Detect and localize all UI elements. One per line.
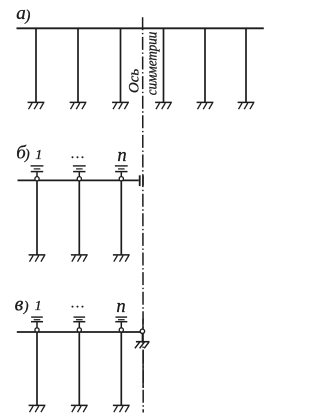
element 1 (electrode symbol, section б) [31,166,44,177]
ground at symmetry axis (section в) [135,342,150,349]
wire down 1 (section б) [36,181,38,255]
wire: branch 3 (section а) [120,28,122,102]
svg-text:): ) [24,8,30,25]
element 1 (electrode symbol, section в) [31,317,43,328]
half-capacitor at symmetry axis (section б) : left plate [139,175,141,186]
wire: branch 4 (section а) [163,28,165,102]
svg-text:): ) [23,299,29,315]
bus wire (section в) [17,331,143,333]
axis of symmetry (dash-dot centre line) [142,17,145,412]
element n (electrode symbol, section в) [115,317,127,328]
bus wire (section б) [18,179,139,181]
axis solid segment below axis ground (section в) [142,350,144,389]
element 2 (electrode symbol, section б) [73,166,86,177]
svg-text:): ) [24,147,30,163]
svg-text:симметрии: симметрии [145,32,161,96]
ground (branch 1, section а) [28,102,45,109]
node circle 1 (section в) [35,328,39,332]
wire down n (section в) [120,332,122,405]
ground n (section б) [113,255,130,262]
ground (branch 3, section а) [112,102,129,109]
wire: branch 5 (section а) [204,28,206,102]
node circle n (section б) [119,177,123,181]
ground 2 (section б) [71,255,88,262]
wire down n (section б) [120,181,122,255]
ground (branch 2, section а) [70,102,87,109]
ground (branch 4, section а) [155,102,172,109]
ground n (section в) [113,405,130,412]
node circle 1 (section б) [35,177,39,181]
axis solid segment above node circle (section в) [142,319,144,330]
wire: branch 6 (section а) [245,28,247,102]
wire from axis node down to ground (section в) [141,334,143,342]
svg-text:в: в [15,293,24,315]
ground 1 (section б) [29,255,46,262]
ground 1 (section в) [29,405,46,412]
svg-text:n: n [117,146,126,166]
bus wire (section а) [17,27,264,29]
ground (branch 5, section а) [197,102,214,109]
svg-text:n: n [116,297,125,317]
node circle n (section в) [119,328,123,332]
ground 2 (section в) [71,405,88,412]
wire down 2 (section в) [78,332,80,405]
svg-text:1: 1 [35,299,42,314]
element n (electrode symbol, section б) [115,166,128,177]
svg-text:1: 1 [35,148,42,163]
half-capacitor at symmetry axis (section б) : right plate on axis [142,176,144,186]
wire: branch 1 (section а) [35,28,37,102]
node circle 2 (section в) [77,328,81,332]
wire down 1 (section в) [36,332,38,405]
wire down 2 (section б) [78,181,80,255]
dots "..." (section в) [72,306,84,308]
ground (branch 6, section а) [238,102,255,109]
node circle at axis (section в) [140,329,144,333]
wire: branch 2 (section а) [77,28,79,102]
svg-text:Ось: Ось [126,69,142,93]
dots "..." (section б) [72,156,84,158]
element 2 (electrode symbol, section в) [73,317,85,328]
node circle 2 (section б) [77,177,81,181]
